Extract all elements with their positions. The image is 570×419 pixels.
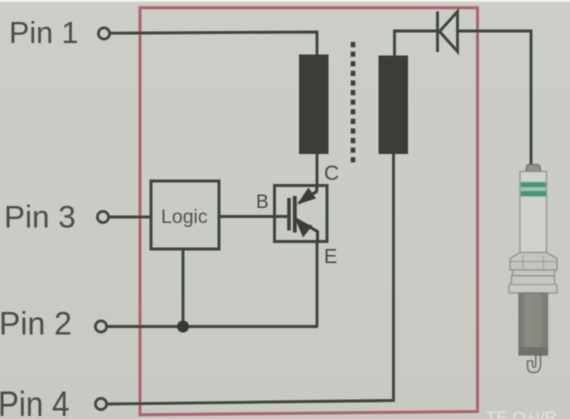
ignition module boundary (red box) — [140, 8, 478, 415]
svg-text:B: B — [256, 192, 269, 213]
plug threaded body — [519, 293, 548, 355]
svg-text:TE Q+|/R: TE Q+|/R — [486, 408, 557, 419]
wire emitter down to pin2 net — [316, 242, 319, 327]
wire primary bottom to collector — [316, 154, 319, 188]
wire logic bottom to pin2 net — [182, 249, 185, 326]
plug green band 1 — [521, 182, 546, 187]
svg-text:Pin 4: Pin 4 — [0, 385, 69, 419]
coil primary winding L1 — [299, 55, 329, 155]
diode D1 — [438, 12, 458, 53]
plug green band 2 — [521, 191, 546, 196]
wire secondary top to diode — [395, 31, 437, 56]
logic block U1 — [151, 181, 219, 249]
junction dot pin2/logic — [177, 321, 189, 333]
wire pin1 to primary winding top — [110, 32, 317, 56]
svg-text:C: C — [324, 162, 339, 185]
wire base: logic to transistor — [219, 215, 290, 218]
plug insulator — [520, 172, 547, 253]
transistor Q1 (IGBT) — [275, 186, 328, 243]
plug shell flange — [509, 276, 557, 293]
wire pin3 to logic — [109, 216, 151, 219]
svg-text:Pin 2: Pin 2 — [0, 306, 72, 342]
plug green band glow — [521, 182, 546, 198]
plug terminal cap — [526, 165, 541, 172]
svg-text:Logic: Logic — [161, 206, 208, 228]
coil core (dashed) — [351, 42, 356, 164]
pin 3 terminal — [97, 211, 108, 222]
svg-text:Pin 1: Pin 1 — [9, 16, 79, 50]
pin 2 terminal — [95, 321, 106, 332]
wire diode to spark plug — [458, 31, 532, 165]
plug shell step — [513, 270, 555, 276]
coil secondary winding L2 — [379, 56, 409, 155]
pin 1 terminal — [98, 28, 109, 39]
spark plug — [509, 165, 557, 373]
svg-text:Pin 3: Pin 3 — [4, 199, 76, 235]
plug ground electrode hook — [528, 355, 541, 373]
pin 4 terminal — [95, 398, 106, 409]
plug hex — [510, 253, 557, 271]
wire pin2 to emitter — [107, 325, 318, 328]
wire pin4 to secondary bottom — [107, 154, 393, 404]
svg-text:E: E — [324, 246, 337, 268]
